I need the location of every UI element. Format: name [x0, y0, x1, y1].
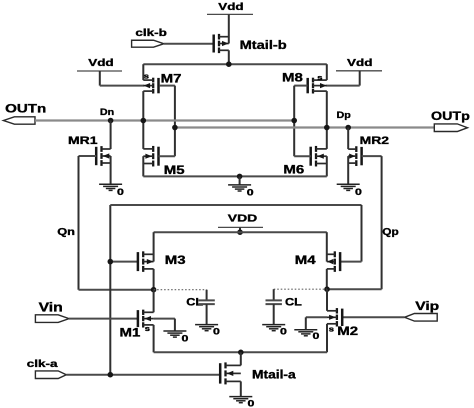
wire: [174, 86, 176, 157]
transistor M2: [327, 308, 342, 326]
wire: [153, 290, 155, 313]
wire: [361, 205, 363, 262]
wire: [326, 91, 328, 149]
svg-text:Mtail-a: Mtail-a: [252, 369, 297, 382]
wire: [69, 318, 138, 320]
wire: [228, 50, 230, 64]
wire: [294, 85, 307, 87]
transistor M4: [327, 251, 340, 272]
svg-text:s: s: [145, 324, 151, 333]
wire: [239, 176, 241, 185]
transistor MR1: [96, 146, 110, 166]
wire: [342, 316, 404, 318]
svg-text:s: s: [144, 72, 150, 81]
svg-text:OUTp: OUTp: [431, 109, 470, 123]
wire: [326, 289, 328, 311]
ground: [294, 330, 317, 336]
wire: [340, 261, 361, 263]
wire: [174, 319, 176, 331]
transistor M3: [138, 251, 154, 272]
svg-text:MR1: MR1: [68, 134, 97, 146]
wire: [143, 63, 326, 65]
transistor M6: [311, 146, 327, 167]
ground: [229, 397, 252, 403]
wire: [240, 352, 242, 365]
svg-text:0: 0: [248, 399, 255, 408]
node junction: [108, 372, 114, 378]
transistor M8: [308, 78, 327, 94]
svg-text:0: 0: [280, 327, 287, 337]
wire: [362, 155, 382, 157]
transistor Mtail-a: [220, 362, 241, 384]
wire Qp: [381, 156, 383, 289]
wire Dn line: [35, 119, 294, 121]
wire: [142, 64, 144, 80]
svg-text:OUTn: OUTn: [5, 102, 46, 115]
node junction: [172, 125, 178, 131]
wire: [110, 261, 138, 263]
svg-text:Dn: Dn: [100, 107, 114, 117]
transistor M5: [143, 146, 158, 167]
wire: [154, 289, 207, 291]
svg-text:Qn: Qn: [57, 226, 75, 238]
wire: [79, 155, 97, 157]
wire: [142, 91, 144, 149]
wire: [154, 318, 175, 320]
svg-text:0: 0: [182, 334, 189, 344]
wire: [154, 351, 327, 353]
wire: [228, 14, 230, 43]
wire: [110, 156, 112, 184]
wire: [153, 269, 155, 290]
ground: [195, 325, 218, 331]
svg-text:Dp: Dp: [337, 111, 351, 121]
wire: [347, 156, 349, 184]
ground: [262, 325, 285, 331]
node junction: [108, 259, 114, 265]
wire: [294, 155, 311, 157]
svg-text:CL: CL: [285, 295, 302, 308]
wire: [142, 156, 144, 176]
wire Dp line: [175, 126, 434, 128]
svg-text:M3: M3: [165, 254, 186, 267]
wire: [240, 381, 242, 396]
wire: [305, 317, 307, 329]
transistor M7: [143, 78, 158, 94]
wire: [306, 316, 327, 318]
svg-text:0: 0: [213, 327, 220, 337]
svg-text:0: 0: [355, 188, 362, 198]
svg-text:Vdd: Vdd: [218, 0, 243, 12]
svg-text:Vin: Vin: [39, 301, 63, 315]
svg-text:Mtail-b: Mtail-b: [240, 38, 287, 51]
node junction: [151, 287, 157, 293]
node junction: [324, 286, 330, 292]
wire: [326, 156, 328, 176]
svg-text:Vdd: Vdd: [88, 57, 113, 69]
svg-text:M4: M4: [295, 254, 316, 267]
svg-text:0: 0: [313, 331, 320, 341]
svg-text:M6: M6: [283, 163, 304, 176]
wire: [326, 269, 328, 289]
ground: [228, 185, 251, 191]
transistor M1: [138, 310, 154, 328]
svg-text:M5: M5: [164, 163, 185, 176]
wire: [154, 231, 327, 233]
wire: [326, 324, 328, 353]
wire: [359, 71, 361, 86]
svg-text:0: 0: [247, 188, 254, 198]
svg-text:Vip: Vip: [415, 299, 439, 313]
node junction: [237, 174, 243, 180]
wire: [153, 325, 155, 352]
svg-text:clk-b: clk-b: [135, 27, 166, 39]
wire: [326, 64, 328, 80]
wire: [326, 232, 328, 261]
ground: [99, 184, 122, 190]
wire: [159, 155, 175, 157]
svg-text:M8: M8: [282, 71, 303, 84]
svg-text:CL: CL: [186, 295, 203, 308]
svg-text:s: s: [317, 73, 323, 82]
svg-text:0: 0: [117, 188, 124, 198]
transistor Mtail-b: [214, 34, 229, 53]
svg-text:M1: M1: [120, 326, 141, 339]
wire: [347, 128, 349, 150]
transistor MR2: [348, 146, 361, 166]
wire: [99, 71, 101, 86]
svg-text:MR2: MR2: [360, 134, 389, 146]
ground: [163, 331, 186, 337]
node junction: [324, 125, 330, 131]
ground: [337, 184, 360, 190]
svg-text:Vdd: Vdd: [347, 57, 372, 69]
wire: [110, 121, 112, 150]
node junction: [291, 118, 297, 124]
wire: [239, 227, 241, 232]
svg-text:clk-a: clk-a: [27, 358, 58, 370]
wire: [110, 204, 361, 206]
svg-text:s: s: [329, 325, 335, 334]
wire: [143, 175, 326, 177]
wire: [153, 232, 155, 261]
svg-text:Qp: Qp: [382, 226, 399, 237]
wire: [66, 374, 220, 376]
svg-text:VDD: VDD: [228, 212, 258, 224]
wire: [274, 288, 327, 290]
wire: [164, 43, 213, 45]
node junction: [237, 229, 243, 235]
wire Qn: [78, 156, 80, 290]
node junction: [238, 350, 244, 356]
svg-text:M2: M2: [337, 325, 358, 338]
wire: [159, 85, 175, 87]
node junction: [226, 61, 232, 67]
node junction: [141, 118, 147, 124]
wire: [109, 205, 111, 375]
svg-text:M7: M7: [161, 72, 182, 85]
wire: [293, 86, 295, 157]
